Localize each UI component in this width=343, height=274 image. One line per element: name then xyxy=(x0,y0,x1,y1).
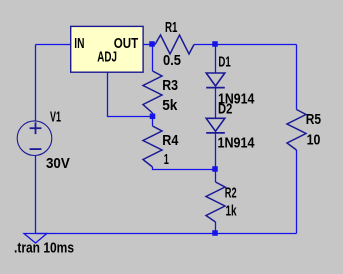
svg-text:.tran 10ms: .tran 10ms xyxy=(14,240,74,256)
V1 plus sign xyxy=(30,127,42,129)
resistor R2 zigzag xyxy=(206,182,225,222)
wire: left vertical down to V1 top xyxy=(35,45,37,122)
junction node C xyxy=(150,114,156,120)
junction node A xyxy=(149,41,155,47)
svg-text:D1: D1 xyxy=(218,55,230,71)
V1 minus sign xyxy=(30,148,42,150)
diode D2 triangle xyxy=(206,118,225,131)
svg-text:V1: V1 xyxy=(50,110,61,126)
wire: D2 cathode to node D xyxy=(215,132,217,170)
junction node E xyxy=(212,230,218,236)
diode D1 triangle xyxy=(206,73,225,86)
svg-text:R5: R5 xyxy=(306,112,321,128)
svg-text:5k: 5k xyxy=(162,98,178,114)
wire: node D down to R2 xyxy=(215,170,217,183)
svg-text:R4: R4 xyxy=(162,133,178,149)
junction node D xyxy=(212,166,218,172)
resistor R3 zigzag xyxy=(143,71,162,113)
svg-text:30V: 30V xyxy=(46,156,70,172)
junction node B xyxy=(212,41,218,47)
svg-text:IN: IN xyxy=(74,36,84,52)
voltage source V1 circle xyxy=(17,121,52,156)
wire: top right horizontal xyxy=(216,44,297,46)
svg-text:D2: D2 xyxy=(218,101,232,117)
wire: bottom horizontal xyxy=(36,233,297,235)
wire: R2 bottom to node E xyxy=(215,222,217,234)
wire: IN pin left horizontal xyxy=(36,44,72,46)
wire: R5 to bottom right corner xyxy=(296,150,298,234)
regulator U1 body xyxy=(71,26,143,72)
resistor R4 zigzag xyxy=(143,126,162,167)
wire: V1 bottom to ground xyxy=(35,156,37,234)
wire: ADJ pin down and right to node C xyxy=(108,72,153,117)
svg-text:0.5: 0.5 xyxy=(163,53,181,69)
wire: R1 right lead to node B xyxy=(194,44,216,46)
wire: node B down to D1 anode xyxy=(215,45,217,74)
svg-text:1: 1 xyxy=(164,152,169,168)
svg-text:10: 10 xyxy=(307,132,321,148)
resistor R5 zigzag xyxy=(287,110,306,151)
wire: node A down to R3 xyxy=(152,45,154,72)
wire: right vertical down to R5 xyxy=(296,45,298,110)
svg-text:ADJ: ADJ xyxy=(97,50,117,66)
wire: R3 bottom to node C and R4 top xyxy=(152,113,154,126)
wire: R4 bottom to node D xyxy=(153,167,216,170)
svg-text:R3: R3 xyxy=(162,78,178,94)
svg-text:1k: 1k xyxy=(226,203,238,219)
ground xyxy=(24,234,47,244)
wire: D1 cathode to D2 anode xyxy=(215,88,217,118)
svg-text:R1: R1 xyxy=(165,20,178,36)
svg-text:R2: R2 xyxy=(225,185,237,201)
diode D1 cathode bar xyxy=(206,87,225,89)
svg-text:1N914: 1N914 xyxy=(218,136,255,152)
diode D2 cathode bar xyxy=(206,132,225,134)
wire: OUT pin to node A xyxy=(143,44,155,46)
svg-text:OUT: OUT xyxy=(114,36,139,52)
resistor R1 zigzag xyxy=(155,35,194,54)
